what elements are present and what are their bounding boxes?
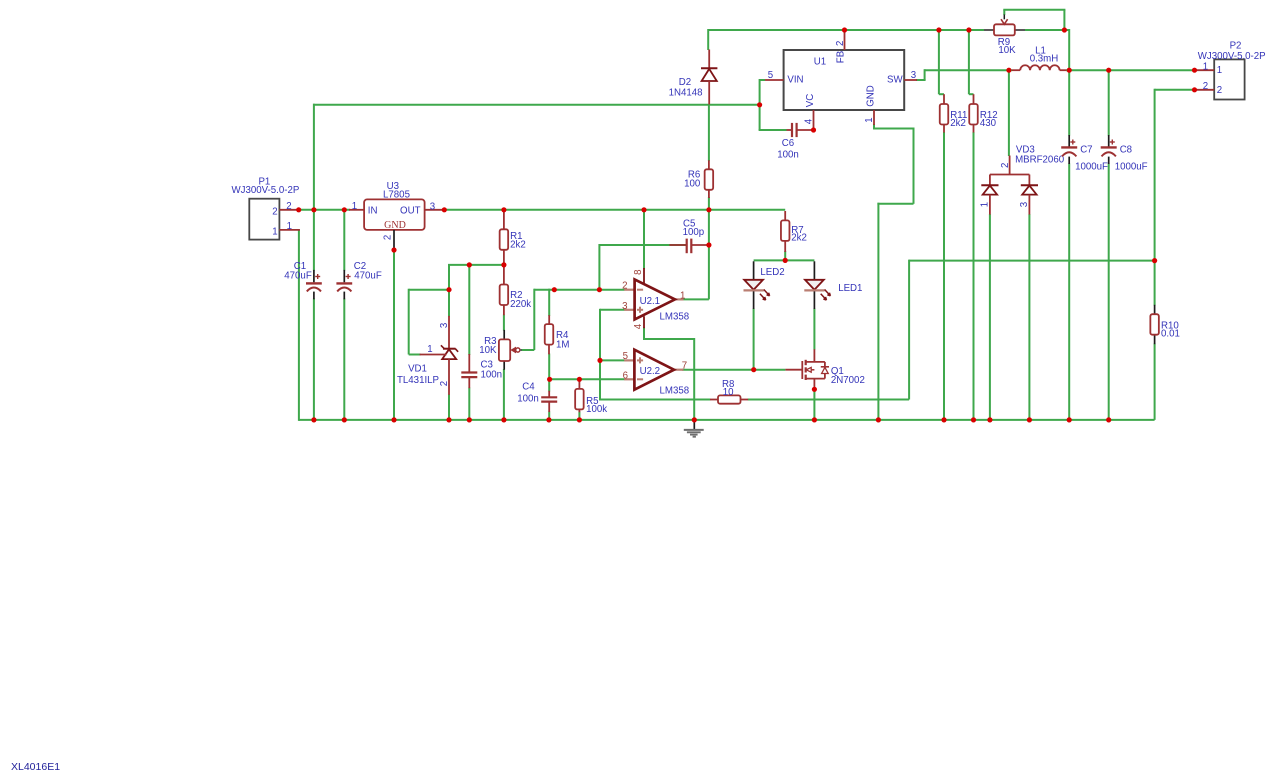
wire divider row y=264.9: [448, 264, 504, 266]
wire U2.2 output row y=369.7: [682, 369, 785, 371]
svg-text:TL431ILP: TL431ILP: [397, 375, 439, 386]
svg-text:SW: SW: [887, 74, 903, 85]
svg-text:2: 2: [286, 201, 291, 212]
svg-text:1: 1: [287, 221, 292, 232]
potentiometer R3 symbol: [503, 330, 505, 340]
wire C6 row y=130: [759, 129, 787, 131]
regulator U3 pin 1 stub: [349, 209, 364, 211]
potentiometer R9 symbol: [984, 29, 994, 31]
svg-text:1: 1: [427, 344, 432, 355]
svg-text:D2: D2: [679, 77, 691, 88]
IC U1 pin 2 stub FB: [844, 32, 846, 50]
svg-text:1M: 1M: [556, 340, 569, 351]
svg-text:3: 3: [439, 323, 450, 328]
wire R4 branch x=549.2: [548, 289, 550, 316]
resistor R8 body: [718, 395, 741, 403]
svg-text:1: 1: [1217, 65, 1222, 76]
wire R8 right riser x=909.1: [908, 260, 910, 400]
svg-text:3: 3: [430, 201, 435, 212]
svg-text:1: 1: [864, 117, 875, 122]
resistor R4 leads: [548, 315, 550, 324]
resistor R6 leads: [708, 160, 710, 169]
wire VD1 loop left x=408.7: [408, 289, 410, 355]
svg-text:1: 1: [1203, 61, 1208, 72]
resistor R11 leads: [943, 94, 945, 104]
wire R12 bottom x=973.5: [973, 132, 975, 420]
wire R6-D2 link x=708.9: [708, 105, 710, 161]
capacitor C2 symbol: [343, 270, 345, 282]
wire FB-to-SW riser x=1069.2: [1064, 29, 1069, 31]
wire LED2 bottom x=753.6: [753, 309, 755, 370]
inductor L1 symbol: [1012, 69, 1020, 71]
IC U1 pin 4 stub VC: [813, 110, 815, 130]
connector P1 pin 2 stub: [279, 209, 298, 211]
regulator U3 pin 2 stub: [393, 230, 395, 250]
wire R5 bottom x=579.4: [578, 412, 580, 420]
wire LED1-Q1 x=814.4: [813, 309, 815, 350]
connector P2 box: [1214, 59, 1244, 99]
wire C2 branch x=344.3: [343, 210, 345, 271]
wire op-amp pin5 row y=360.4: [600, 359, 625, 361]
wire P1 pin1 drop x=298.9: [298, 229, 300, 421]
svg-text:5: 5: [768, 70, 773, 81]
svg-text:MBRF2060: MBRF2060: [1015, 154, 1065, 165]
wire R11 branch x=938.9: [938, 29, 940, 94]
svg-text:IN: IN: [368, 205, 378, 216]
wire LED top row y=260.4: [754, 259, 815, 261]
capacitor C3 symbol: [468, 354, 470, 372]
svg-text:10K: 10K: [998, 45, 1016, 56]
wire R9 wiper loop vertical x=1064.4: [1063, 10, 1065, 30]
LED LED1 symbol: [813, 261, 815, 279]
wire C5 left riser x=599.4: [598, 244, 600, 290]
svg-text:100p: 100p: [683, 227, 705, 238]
wire U1 GND jog y=203.8: [877, 203, 913, 205]
wire sense row y=260.6: [909, 260, 1155, 262]
wire C7 branch x=1069.2: [1068, 70, 1070, 135]
wire pin3-pin5 riser x=600: [599, 309, 601, 401]
wire R9 wiper loop horizontal y=9.7: [1003, 9, 1065, 11]
resistor R5 leads: [578, 378, 580, 389]
svg-text:U2.1: U2.1: [640, 296, 660, 307]
wire U2.1 output row y=299.4: [682, 298, 709, 300]
regulator U3 box: [364, 199, 425, 230]
svg-text:2: 2: [622, 280, 627, 291]
wire main +5V rail left y=210: [299, 209, 350, 211]
wire R10 branch x=1154.6: [1154, 261, 1156, 306]
svg-text:4: 4: [633, 323, 644, 329]
svg-text:WJ300V-5.0-2P: WJ300V-5.0-2P: [231, 185, 299, 196]
regulator U3 pin 3 stub: [425, 209, 445, 211]
wire SW pin elbow x=924.6: [924, 69, 926, 80]
svg-text:2: 2: [382, 235, 393, 240]
wire C8 branch x=1108.7: [1108, 70, 1110, 135]
wire net VIN_RAW top horizontal y=105: [313, 104, 760, 106]
wire SW pin row y=80: [916, 79, 926, 81]
wire op-amp pin3 row y=309.8: [600, 309, 625, 311]
wire main +5V rail right y=210: [444, 209, 785, 211]
wire C1 branch x=313.9: [313, 104, 315, 271]
svg-text:2: 2: [1203, 81, 1208, 92]
resistor R7 body: [781, 220, 790, 241]
svg-text:220k: 220k: [510, 299, 531, 310]
wire net SW/OUT horizontal y=70.2: [925, 69, 1012, 71]
svg-text:3: 3: [622, 301, 627, 312]
wire ground rail y=419.9: [299, 419, 1155, 421]
resistor R6 body: [705, 169, 714, 190]
wire pin8 drop x=644: [643, 210, 645, 269]
svg-text:2N7002: 2N7002: [831, 375, 865, 386]
svg-text:2k2: 2k2: [510, 240, 526, 251]
wire VD1 loop top y=289.7: [409, 289, 449, 291]
svg-text:VD1: VD1: [408, 364, 427, 375]
connector P1 box: [249, 199, 279, 240]
wire pin4 gnd drop x=694.2: [693, 338, 695, 420]
IC U1 box: [784, 50, 905, 110]
ground symbol: [693, 421, 695, 430]
svg-text:LED2: LED2: [760, 267, 784, 278]
svg-text:2: 2: [1217, 85, 1222, 96]
svg-text:0.3mH: 0.3mH: [1030, 53, 1059, 64]
svg-text:2: 2: [272, 207, 277, 218]
wire R11 bottom x=944: [943, 132, 945, 420]
svg-text:1000uF: 1000uF: [1075, 161, 1108, 172]
resistor R2 leads: [503, 264, 505, 285]
LED LED2 symbol: [753, 261, 755, 279]
svg-text:2k2: 2k2: [950, 118, 966, 129]
svg-text:2: 2: [1000, 163, 1011, 168]
wire pin4 drop x=644: [643, 327, 645, 340]
svg-text:5: 5: [623, 351, 628, 362]
wire C3 branch x=469.3: [468, 265, 470, 355]
svg-text:C8: C8: [1120, 144, 1132, 155]
svg-text:8: 8: [633, 270, 644, 275]
svg-text:1000uF: 1000uF: [1115, 161, 1148, 172]
resistor R10 body: [1150, 314, 1159, 335]
junction dots (all nets): [842, 27, 847, 32]
svg-text:2: 2: [835, 41, 846, 46]
svg-text:GND: GND: [384, 220, 406, 231]
svg-text:WJ300V-5.0-2P: WJ300V-5.0-2P: [1198, 51, 1266, 62]
resistor R5 body: [575, 389, 584, 410]
connector P1 pin 1 stub: [279, 229, 300, 231]
wire R9 wiper riser x=1004.3: [1003, 10, 1005, 15]
svg-text:FB: FB: [836, 51, 847, 63]
svg-text:2k2: 2k2: [791, 232, 807, 243]
capacitor C8 symbol: [1108, 135, 1110, 147]
svg-text:1: 1: [680, 290, 685, 301]
resistor R8 leads: [710, 399, 718, 401]
IC U1 pin 5 stub VIN: [765, 79, 784, 81]
svg-text:7: 7: [682, 360, 687, 371]
svg-text:3: 3: [1019, 202, 1030, 207]
svg-text:L7805: L7805: [383, 190, 410, 201]
svg-text:3: 3: [911, 70, 916, 81]
svg-text:470uF: 470uF: [284, 271, 312, 282]
svg-text:4: 4: [803, 118, 814, 124]
svg-text:LM358: LM358: [660, 311, 690, 322]
resistor R7 leads: [784, 211, 786, 220]
svg-text:10K: 10K: [479, 345, 497, 356]
resistor R4 body: [545, 324, 554, 345]
svg-text:100n: 100n: [481, 369, 503, 380]
svg-text:U1: U1: [814, 57, 826, 68]
wire VD3 pin3 bottom x=1029.4: [1028, 214, 1030, 420]
svg-text:C6: C6: [782, 138, 794, 149]
diode D2 symbol: [708, 50, 710, 69]
wire VD1 pin1 row y=354.5: [409, 354, 421, 356]
svg-text:GND: GND: [866, 85, 877, 107]
capacitor C4 symbol: [548, 391, 550, 397]
resistor R1 body: [500, 229, 509, 250]
resistor R1 leads: [503, 210, 505, 230]
wire VD3 top x=1008.9: [1008, 69, 1010, 156]
wire R3 wiper row y=350: [521, 349, 534, 351]
wire VD3 pin1 bottom x=989.9: [989, 214, 991, 420]
svg-text:C4: C4: [522, 382, 535, 393]
wire op-amp pin2 row y=289.7: [534, 289, 624, 291]
svg-text:470uF: 470uF: [354, 271, 382, 282]
wire pin4 power jog y=339: [644, 338, 694, 340]
wire R8 row y=399.5: [600, 399, 710, 401]
resistor R12 body: [969, 104, 978, 125]
resistor R10 pins: [1154, 305, 1156, 314]
resistor R12 leads: [973, 94, 975, 104]
capacitor C7 symbol: [1068, 135, 1070, 147]
transistor Q1 symbol: [785, 369, 802, 371]
resistor R2 body: [500, 285, 509, 306]
wire R12 branch x=968.9: [968, 29, 970, 94]
wire wiper riser x=534.3: [533, 289, 535, 350]
svg-text:1N4148: 1N4148: [669, 88, 703, 99]
connector P2 pin 2 stub: [1195, 89, 1215, 91]
wire R2-R3 link x=503.9: [503, 315, 505, 331]
svg-text:VIN: VIN: [787, 74, 803, 85]
connector P2 pin 1 stub: [1195, 69, 1215, 71]
capacitor C5 symbol: [669, 244, 686, 246]
svg-text:430: 430: [980, 118, 997, 129]
wire U1 GND drop x=913.5: [913, 128, 915, 204]
dual diode VD3 symbol: [1009, 156, 1011, 175]
shunt reference VD1 symbol: [448, 316, 450, 349]
svg-text:1: 1: [980, 202, 991, 207]
svg-text:C7: C7: [1080, 144, 1092, 155]
svg-text:1: 1: [272, 227, 277, 238]
wire U1 GND drop x=878.4: [877, 203, 879, 420]
svg-text:OUT: OUT: [400, 205, 421, 216]
capacitor C6 symbol: [787, 129, 792, 131]
wire P2 pin2 row y=89.8: [1155, 89, 1195, 91]
svg-text:6: 6: [623, 370, 628, 381]
svg-text:U2.2: U2.2: [640, 366, 660, 377]
svg-text:LED1: LED1: [838, 283, 862, 294]
op-amp U2.2 symbol: [624, 359, 634, 361]
wire VIN pin row y=80: [760, 79, 765, 81]
IC U1 pin 3 stub SW: [904, 79, 917, 81]
wire VIN pin elbow x=759.6: [759, 79, 761, 130]
wire VD1 branch x=449: [448, 265, 450, 317]
wire op-amp pin6 row y=379.3: [549, 378, 624, 380]
svg-text:1: 1: [352, 201, 357, 212]
wire U1 GND jog y=128.5: [874, 128, 914, 130]
svg-text:LM358: LM358: [660, 386, 690, 397]
wire C5 row y=245: [599, 244, 687, 246]
wire net FB top horizontal y=30: [708, 29, 985, 31]
wire P2 pin2 drop x=1154.6: [1154, 89, 1156, 261]
svg-text:10: 10: [723, 387, 734, 398]
svg-text:100n: 100n: [777, 150, 799, 161]
svg-text:VC: VC: [805, 94, 816, 107]
svg-text:XL4016E1: XL4016E1: [11, 761, 60, 773]
wire U3 GND drop x=394: [393, 250, 395, 420]
svg-text:2: 2: [439, 381, 450, 386]
op-amp U2.1 symbol: [643, 268, 645, 285]
svg-text:100k: 100k: [586, 404, 607, 415]
IC U1 pin 1 stub GND: [873, 110, 875, 125]
svg-text:100: 100: [684, 178, 701, 189]
wire D2 top elbow x=708.2: [707, 29, 709, 50]
svg-text:100n: 100n: [517, 394, 539, 405]
capacitor C1 symbol: [313, 270, 315, 282]
resistor R11 body: [940, 104, 949, 125]
svg-text:0.01: 0.01: [1161, 329, 1180, 340]
